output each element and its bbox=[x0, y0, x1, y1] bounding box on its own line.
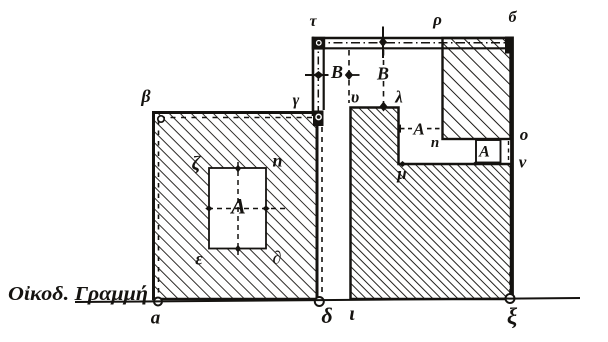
svg-text:B: B bbox=[376, 64, 389, 84]
svg-text:ζ: ζ bbox=[192, 153, 202, 175]
svg-text:δ: δ bbox=[321, 303, 332, 328]
svg-text:б: б bbox=[509, 9, 518, 26]
svg-text:ι: ι bbox=[349, 303, 355, 325]
svg-text:ρ: ρ bbox=[432, 10, 442, 29]
svg-text:ν: ν bbox=[519, 153, 527, 172]
svg-text:ε: ε bbox=[195, 249, 203, 269]
svg-text:n: n bbox=[272, 151, 282, 171]
svg-text:o: o bbox=[520, 125, 529, 144]
svg-text:Οἰκοδ. Γραμμή: Οἰκοδ. Γραμμή bbox=[8, 283, 148, 305]
svg-text:A: A bbox=[478, 144, 490, 161]
svg-text:υ: υ bbox=[351, 88, 359, 107]
svg-text:τ: τ bbox=[309, 13, 317, 30]
svg-text:B: B bbox=[330, 62, 343, 82]
svg-text:a: a bbox=[151, 308, 161, 329]
svg-text:A: A bbox=[229, 194, 246, 219]
svg-text:γ: γ bbox=[293, 92, 300, 109]
svg-text:n: n bbox=[431, 135, 439, 151]
svg-text:λ: λ bbox=[394, 88, 403, 107]
svg-text:μ: μ bbox=[396, 164, 406, 183]
svg-text:∂: ∂ bbox=[273, 248, 282, 268]
svg-text:β: β bbox=[140, 86, 151, 106]
svg-text:A: A bbox=[412, 120, 424, 139]
svg-text:ξ: ξ bbox=[507, 304, 518, 329]
